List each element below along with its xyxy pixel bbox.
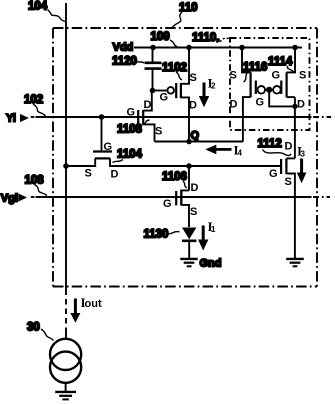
transistor 1106 (switch, gate on Vgl) (176, 166, 189, 227)
ground (right, below 1112) (286, 259, 304, 266)
1108 terminal labels (127, 99, 163, 138)
1104 terminal labels (85, 141, 119, 181)
svg-text:Q: Q (191, 130, 200, 142)
label 1112 (258, 138, 292, 156)
svg-text:S: S (230, 70, 237, 82)
svg-text:G: G (269, 168, 278, 180)
current arrow I3 (297, 144, 307, 184)
transistor 1102 (p-type drive transistor) (153, 48, 190, 142)
transistor 1104 (horizontal switch) (66, 117, 282, 166)
node: 1104 source tap on column line (63, 163, 69, 169)
svg-text:S: S (190, 72, 197, 84)
ground (below current source) (55, 392, 76, 400)
svg-text:S: S (285, 176, 292, 188)
node: cap tap on Vdd (150, 45, 156, 51)
svg-text:S: S (85, 168, 92, 180)
1114 drain lead down to 1112 (294, 97, 296, 158)
svg-text:1110.: 1110. (192, 32, 220, 44)
label 30 (27, 322, 54, 341)
svg-text:Vgl: Vgl (1, 193, 18, 205)
svg-text:G: G (127, 107, 136, 119)
row line Vgl (108) (31, 196, 35, 198)
1112 terminal labels (269, 141, 293, 189)
svg-text:2: 2 (211, 82, 216, 91)
label 1110 (192, 32, 230, 44)
label 108 (25, 175, 48, 196)
svg-text:D: D (144, 99, 152, 111)
label 1130 (144, 229, 180, 241)
inner current-mirror box 1110 (230, 38, 310, 130)
node Q horizontal wire (155, 141, 244, 143)
transistor 1108 (switch, gate on Yi) (138, 91, 154, 142)
svg-text:G: G (104, 141, 113, 153)
svg-text:1108: 1108 (117, 124, 143, 136)
label 1104 (113, 149, 143, 163)
row select line Yi (102) (31, 116, 35, 118)
1102 terminal labels (160, 72, 198, 112)
label 1114 (268, 56, 294, 72)
svg-text:1116: 1116 (243, 62, 267, 74)
svg-text:S: S (299, 70, 306, 82)
Yi label and arrow (6, 113, 29, 125)
node: 1114 source tap on Vdd (292, 45, 298, 51)
transistor 1114 (mirror, p-type, diode-connected) (269, 48, 295, 98)
svg-text:D: D (111, 169, 119, 181)
svg-text:G: G (272, 70, 281, 82)
svg-text:1104: 1104 (117, 149, 143, 161)
svg-text:3: 3 (301, 150, 306, 159)
svg-text:D: D (191, 182, 199, 194)
current arrow I4 (205, 143, 242, 158)
label 1102 (162, 62, 187, 80)
label 1116 (243, 62, 267, 83)
svg-text:D: D (189, 100, 197, 112)
node: mirror gate tie junction (266, 87, 272, 93)
svg-text:1102: 1102 (162, 62, 187, 74)
transistor 1116 (mirror, p-type) (242, 48, 269, 142)
outer pixel-cell boundary box 110 (53, 28, 317, 287)
svg-text:Gnd: Gnd (200, 258, 222, 270)
diode 1130 (light emitting element) (182, 228, 196, 259)
svg-text:1120: 1120 (112, 56, 137, 68)
node: 1114 drain / gate tie junction (292, 104, 297, 109)
svg-text:G: G (160, 92, 169, 104)
svg-text:Vdd: Vdd (113, 42, 134, 54)
label 102 (24, 94, 46, 116)
svg-text:109: 109 (151, 31, 170, 43)
current source 30 (50, 339, 81, 392)
Vdd supply rail (134, 47, 302, 49)
svg-text:G: G (163, 198, 172, 210)
node: junction on 1104-1112 wire (186, 163, 192, 169)
svg-text:D: D (230, 99, 238, 111)
current arrow I1 (198, 219, 216, 251)
svg-text:104: 104 (28, 1, 48, 13)
current arrow Iout (70, 295, 102, 323)
1114 terminal labels (272, 70, 307, 111)
svg-text:D: D (297, 99, 305, 111)
Vgl label and arrow (1, 193, 27, 205)
label 1108 (117, 120, 150, 136)
svg-text:D: D (285, 141, 293, 153)
label 104 (28, 1, 66, 22)
1106 terminal labels (163, 182, 199, 218)
svg-text:out: out (85, 298, 102, 310)
svg-text:1130: 1130 (144, 229, 169, 241)
capacitor 1120 (145, 48, 162, 91)
node: 1116 source tap on Vdd (239, 45, 245, 51)
column output line 104 (vertical data line) (65, 3, 67, 295)
1116 terminal labels (230, 70, 265, 111)
svg-text:1: 1 (211, 225, 216, 234)
node Q junction dot (186, 139, 192, 145)
svg-text:30: 30 (27, 322, 40, 334)
svg-text:S: S (155, 126, 162, 138)
ground (left, below diode) (180, 259, 197, 266)
label 1106 (162, 171, 187, 188)
svg-text:4: 4 (238, 149, 243, 158)
transistor 1112 (output switch) (281, 158, 295, 258)
node: gate node (cap / 1102 gate / 1108 drain) (150, 88, 156, 94)
current arrow I2 (199, 76, 216, 108)
node: 1104 gate tap on Yi (99, 114, 105, 120)
svg-text:Yi: Yi (6, 113, 16, 125)
svg-text:G: G (256, 97, 265, 109)
label 110 (172, 2, 198, 28)
svg-text:S: S (190, 206, 197, 218)
wire: gate-to-drain tie of mirror (269, 90, 295, 107)
label 1120 (112, 56, 144, 68)
label 109 (151, 31, 178, 47)
svg-text:1112: 1112 (258, 138, 282, 150)
node: 1102 source tap on Vdd (186, 45, 192, 51)
svg-text:1114: 1114 (268, 56, 293, 68)
